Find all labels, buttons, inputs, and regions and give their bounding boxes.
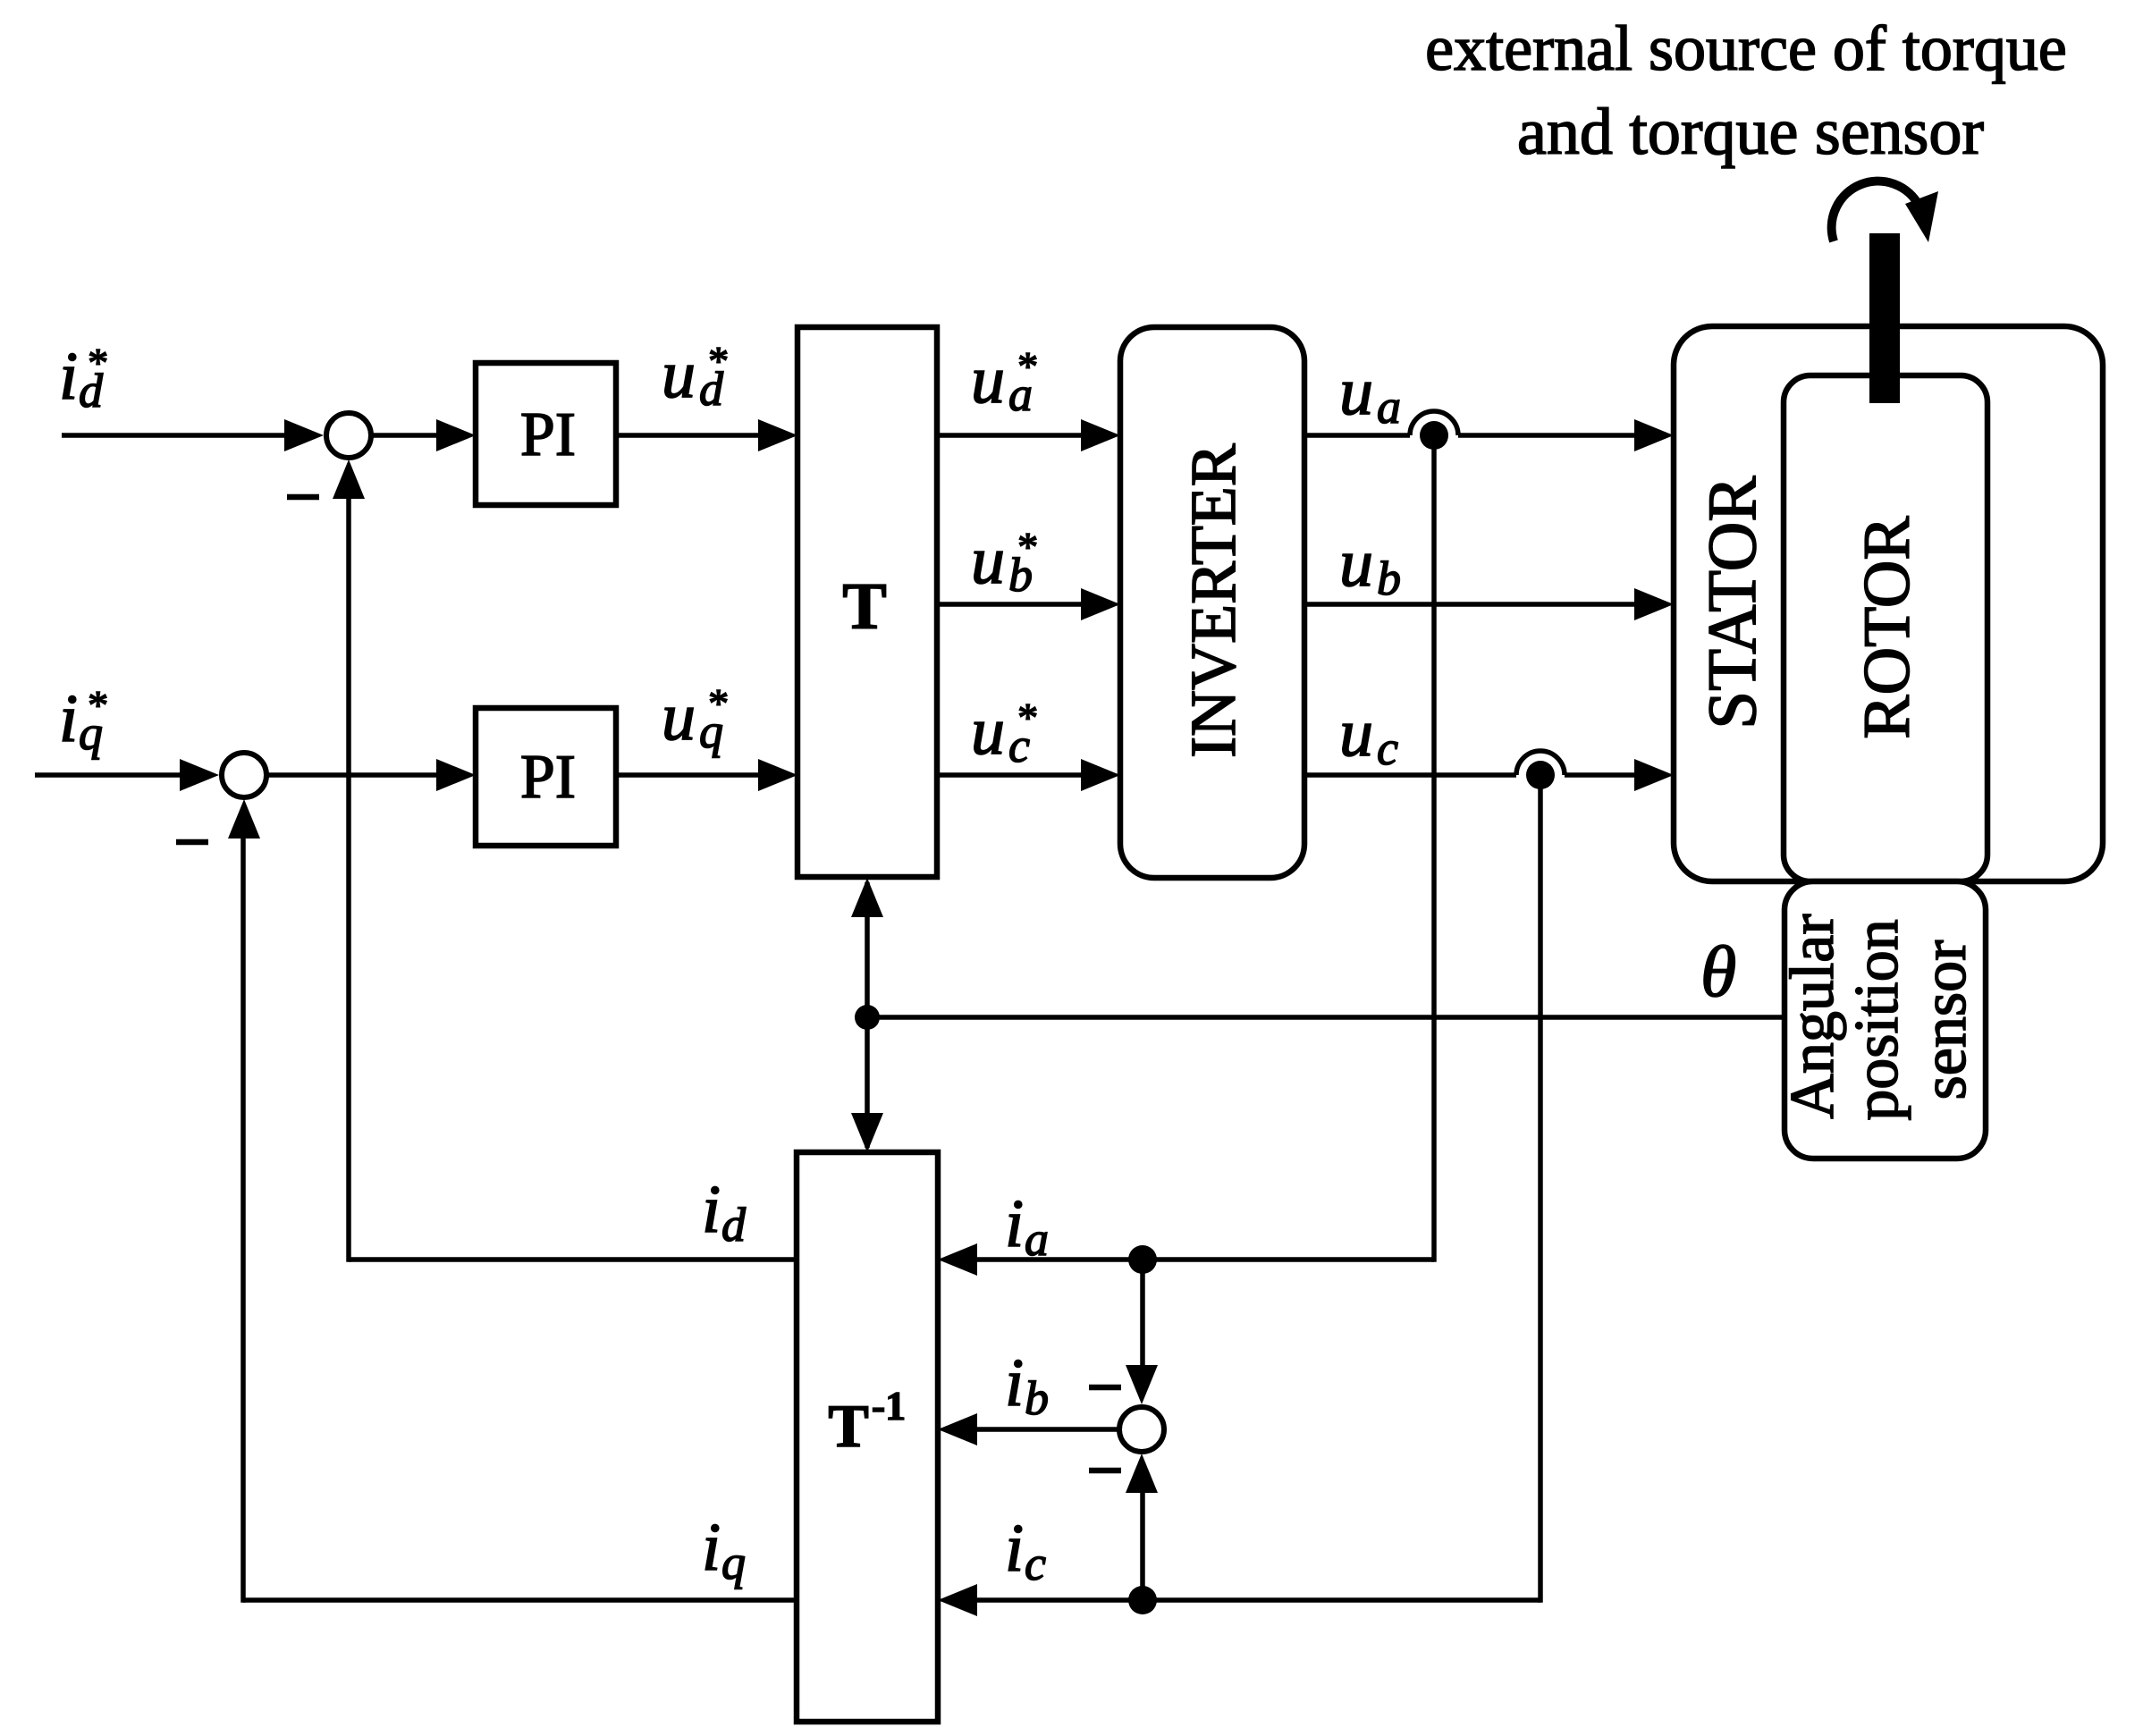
label i_c (1005, 1511, 1046, 1590)
arrowhead into STATOR row 2 (1634, 588, 1674, 620)
wire: T to INVERTER row 3 (u_c*) (937, 772, 1084, 778)
rotation arrow (torque direction arc) (1832, 181, 1938, 242)
svg-text:a: a (1377, 380, 1401, 434)
arrowhead into INVERTER row 3 (1081, 759, 1120, 791)
svg-text:d: d (721, 1198, 747, 1251)
label i_b (1005, 1345, 1049, 1425)
svg-text:b: b (1025, 1371, 1049, 1425)
label T^-1 (828, 1383, 906, 1460)
arrowhead down into S3 top (1126, 1365, 1158, 1404)
arrowhead up into T bottom (851, 878, 883, 917)
label u_b (1339, 526, 1401, 605)
svg-text:θ: θ (1700, 931, 1736, 1012)
label u_c* (971, 694, 1036, 772)
svg-text:INVERTER: INVERTER (1177, 443, 1249, 758)
svg-text:q: q (721, 1536, 746, 1589)
minus sign at S2 (176, 839, 208, 846)
wire: S2 to PI2 (266, 772, 440, 778)
wire: PI2 to T with label u_q* (616, 772, 762, 778)
svg-text:*: * (706, 338, 727, 383)
label: external source of torque and torque sensor (1425, 13, 2067, 169)
svg-text:u: u (1339, 526, 1373, 601)
wire: i_q feedback from T^-1 left to vertical riser (243, 1597, 797, 1603)
arrowhead up into S3 bottom (1126, 1454, 1158, 1493)
wire: S1 to PI1 (371, 433, 440, 438)
wire: u_a tap vertical down to i_a row (1431, 435, 1437, 1262)
wire: i_a row into T^-1 (974, 1257, 1434, 1262)
arrowhead into T^-1 (i_c) (938, 1584, 977, 1616)
svg-text:i: i (1005, 1345, 1024, 1420)
wire: INVERTER to STATOR row 3 (u_c) with hop at tap (1304, 751, 1638, 775)
arrowhead into T (row 1) (758, 419, 797, 451)
label u_q* (662, 679, 727, 758)
wire: INVERTER to STATOR row 1 (u_a) with hop at tap (1304, 411, 1638, 435)
arrowhead into STATOR row 1 (1634, 419, 1674, 451)
arrowhead into PI1 (436, 419, 476, 451)
node: tap dot on u_a (1420, 421, 1448, 450)
svg-text:-1: -1 (872, 1383, 906, 1428)
arrowhead down into T^-1 top (851, 1113, 883, 1152)
label i_a (1005, 1186, 1049, 1266)
wire: u_c tap vertical down to i_c row (1538, 775, 1543, 1603)
arrowhead into summing junction S2 (180, 759, 219, 791)
PI controller PI1 (d axis) (476, 363, 616, 505)
node: tap dot on u_c (1526, 761, 1555, 789)
node: dot on i_a row (1128, 1245, 1157, 1274)
label u_d* (662, 337, 727, 416)
svg-text:u: u (1339, 695, 1373, 771)
arrowhead into STATOR row 3 (1634, 759, 1674, 791)
label u_b* (971, 523, 1036, 602)
arrowhead into T (row 3) (758, 759, 797, 791)
svg-text:i: i (59, 681, 78, 756)
svg-text:b: b (1377, 552, 1401, 605)
wire: i_d feedback from T^-1 left to vertical riser (349, 1257, 797, 1262)
label u_a (1339, 354, 1401, 434)
label u_a* (971, 342, 1036, 421)
node: dot on i_c row (1128, 1586, 1157, 1614)
label i_d* (59, 339, 106, 417)
svg-text:position: position (1843, 919, 1911, 1121)
wire: i_d* input line (62, 433, 288, 438)
arrowhead into T^-1 (i_b) (938, 1413, 977, 1445)
svg-text:a: a (1025, 1212, 1049, 1266)
summing junction S2 (circle) (222, 753, 266, 797)
INVERTER block (1120, 327, 1304, 878)
svg-text:ROTOR: ROTOR (1851, 516, 1924, 739)
wire: PI1 to T with label u_d* (616, 433, 762, 438)
arrowhead into INVERTER row 1 (1081, 419, 1120, 451)
arrowhead into summing junction S1 (284, 419, 324, 451)
svg-text:i: i (702, 1510, 721, 1585)
wire: T to INVERTER row 2 (u_b*) (937, 602, 1084, 607)
svg-text:u: u (1339, 354, 1373, 429)
svg-text:STATOR: STATOR (1693, 476, 1770, 729)
label i_q (702, 1510, 746, 1589)
label i_q* (59, 681, 106, 760)
wire: theta line from node to Angular position sensor (867, 1015, 1784, 1020)
svg-text:external source of torque: external source of torque (1425, 13, 2067, 84)
node: theta junction dot (855, 1005, 880, 1030)
svg-text:u: u (662, 337, 696, 412)
transform block T (797, 327, 937, 877)
svg-text:u: u (971, 342, 1005, 417)
wire: from i_c dot up into summing junction S3 (1140, 1491, 1145, 1600)
svg-text:u: u (971, 694, 1005, 769)
inverse transform block T^-1 (797, 1152, 938, 1722)
svg-text:u: u (662, 679, 696, 754)
svg-text:PI: PI (520, 743, 576, 812)
summing junction S1 (circle) (326, 413, 371, 458)
minus sign above S3 (1089, 1385, 1121, 1391)
minus sign below S3 (1089, 1468, 1121, 1474)
wire: i_q vertical riser up to S2 (240, 837, 246, 1603)
svg-text:*: * (1016, 695, 1036, 740)
svg-text:*: * (1016, 343, 1036, 389)
arrowhead into T^-1 (i_a) (938, 1243, 977, 1276)
minus sign at S1 (287, 494, 319, 501)
arrowhead up into S1 bottom (333, 459, 365, 499)
svg-text:and torque sensor: and torque sensor (1517, 96, 1984, 169)
svg-text:i: i (59, 339, 78, 414)
Angular position sensor block (1784, 881, 1986, 1159)
arrowhead into PI2 (436, 759, 476, 791)
svg-text:T: T (828, 1392, 868, 1460)
wire: i_d vertical riser up to S1 (346, 497, 351, 1262)
label i_d (702, 1172, 747, 1251)
label Angular position sensor (rotated, three lines) (1778, 914, 1979, 1120)
PI controller PI2 (q axis) (476, 708, 616, 846)
svg-text:c: c (1377, 721, 1398, 775)
ROTOR block (1784, 375, 1987, 881)
svg-text:i: i (1005, 1511, 1024, 1586)
STATOR block (outer machine box) (1674, 326, 2103, 881)
svg-text:*: * (1016, 524, 1036, 569)
arrowhead into INVERTER row 2 (1081, 588, 1120, 620)
summing junction S3 (circle) (1119, 1407, 1164, 1452)
svg-text:i: i (1005, 1186, 1024, 1261)
wire: i_c row into T^-1 (974, 1597, 1540, 1603)
svg-text:c: c (1025, 1537, 1046, 1590)
wire: vertical double-arrow between T and T^-1 (865, 882, 870, 1148)
svg-text:*: * (706, 680, 727, 726)
svg-text:PI: PI (520, 400, 576, 469)
wire: S3 output to T^-1 (i_b) (974, 1427, 1119, 1432)
arrowhead up into S2 bottom (228, 799, 260, 839)
wire: INVERTER to STATOR row 2 (u_b) (1304, 602, 1638, 607)
wire: T to INVERTER row 1 (u_a*) (937, 433, 1084, 438)
svg-text:T: T (842, 570, 886, 644)
svg-text:u: u (971, 523, 1005, 598)
wire: from i_a dot down into summing junction S3 (1140, 1260, 1145, 1367)
svg-text:Angular: Angular (1778, 914, 1847, 1118)
label u_c (1339, 695, 1398, 775)
wire: i_q* input line (35, 772, 183, 778)
rotor shaft (over boxes) (1869, 233, 1900, 403)
svg-text:*: * (86, 340, 106, 385)
svg-text:*: * (86, 682, 106, 728)
svg-text:i: i (702, 1172, 721, 1247)
svg-text:sensor: sensor (1911, 940, 1979, 1100)
